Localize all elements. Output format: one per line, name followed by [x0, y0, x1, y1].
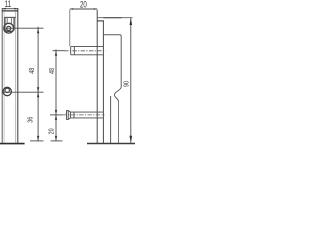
dim 20 top right arrow [94, 8, 97, 10]
svg-text:48: 48 [48, 68, 56, 74]
dim 20 right top arrow [55, 115, 57, 120]
svg-text:11: 11 [5, 0, 11, 10]
dim 48 left top arrow [37, 28, 39, 33]
right view outer lower line [118, 102, 120, 144]
keeper slot right line [10, 18, 12, 24]
svg-text:36: 36 [27, 116, 35, 122]
dim column 48/36 vertical line [37, 27, 39, 141]
dim 36 bottom tick line [30, 140, 44, 142]
left view inner right groove line [15, 11, 17, 143]
dim 48 left bottom arrow [37, 87, 39, 92]
top stud dashed centerline [64, 50, 105, 52]
bottom stud flange [67, 111, 69, 120]
dim 36 bottom arrow [37, 136, 39, 141]
svg-text:90: 90 [123, 81, 131, 87]
svg-text:20: 20 [48, 128, 56, 134]
keeper housing top line [4, 16, 15, 18]
right view front face line [96, 10, 98, 143]
dim 90 top arrow [130, 18, 133, 25]
dim 11 line [2, 8, 18, 10]
left view inner left groove line [3, 11, 5, 143]
screw outer circle [3, 87, 11, 95]
bottom stud dashed centerline [63, 114, 105, 116]
left view outer left edge [1, 8, 3, 143]
right view S-curve [114, 87, 121, 102]
dim 20 middle tick [50, 114, 63, 116]
dim 90 line [130, 18, 132, 143]
left view top edge [2, 10, 18, 12]
dim 48 right bottom arrow [55, 110, 57, 115]
screw inner circle [5, 88, 9, 92]
dim 48 right top arrow [55, 51, 57, 56]
dim 36 top arrow [37, 92, 39, 97]
roller centerline to dim column [7, 27, 44, 29]
right view groove line [110, 96, 112, 143]
dim 90 bottom arrow [130, 136, 133, 143]
right view shoulder edge [103, 35, 121, 87]
right view back face line [102, 21, 104, 143]
bottom stud body [70, 112, 103, 118]
baseline left segment [0, 143, 25, 145]
roller inner circle [7, 26, 11, 30]
top stud body [71, 47, 103, 55]
left view outer right edge [17, 8, 19, 143]
dim 20 bottom tick [51, 140, 63, 142]
baseline right segment [87, 143, 135, 145]
dim 20 top left arrow [70, 8, 73, 10]
screw centerline to dim column [3, 91, 44, 93]
right view top edge / 90 extension line [97, 17, 132, 19]
dim 20 top left extension line [69, 10, 71, 47]
dim 48 right top tick [53, 50, 65, 52]
roller outer circle [4, 23, 14, 33]
dim column 48/20 vertical line [55, 49, 57, 140]
dim 11 right arrow [14, 8, 17, 10]
right view top edge darker segment [103, 17, 121, 19]
svg-text:20: 20 [80, 0, 87, 10]
svg-text:48: 48 [28, 67, 36, 73]
dim 20 top line [70, 8, 97, 10]
keeper slot left line [6, 18, 8, 24]
dim 11 left arrow [2, 8, 5, 10]
dim 20 right bottom arrow [55, 136, 57, 141]
keeper housing rounded box [5, 18, 14, 32]
bottom stud chamfer [68, 111, 70, 120]
right view step edge [97, 20, 104, 22]
